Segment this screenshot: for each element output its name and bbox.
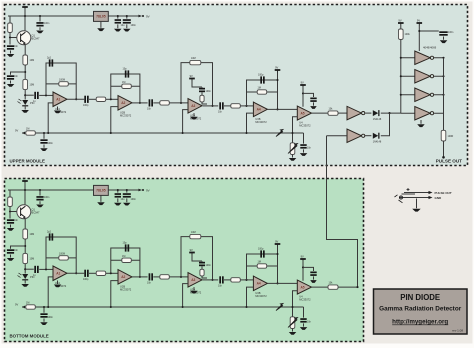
wire C6 to ground <box>43 145 45 148</box>
wire R9 to A3 B <box>169 276 188 278</box>
voltage regulator BU1 78L05 <box>94 185 109 195</box>
wire C15 to ground <box>303 149 305 152</box>
svg-text:10p: 10p <box>123 242 128 245</box>
junction detector node <box>24 94 26 96</box>
buffer U6C <box>415 88 434 102</box>
svg-text:A1: A1 <box>56 98 60 102</box>
svg-text:BC547: BC547 <box>32 37 40 41</box>
wire supply to C16 <box>419 30 439 32</box>
junction detector node B <box>24 268 26 270</box>
junction A4 output B <box>276 282 278 284</box>
op-amp BU2B <box>118 270 132 292</box>
wire bus to C15 B <box>303 307 305 318</box>
resistor R12 <box>231 104 241 108</box>
wire rail to C4 B <box>117 190 119 193</box>
trimmer arrow BRV1 <box>276 304 283 311</box>
wire detector to C7 B <box>25 268 34 270</box>
ground under D-PIN B <box>21 284 29 287</box>
PIN photodiode D1 <box>18 99 35 106</box>
trimpot arrow RV2 <box>288 144 298 154</box>
battery supply BAT <box>22 2 28 9</box>
capacitor C5 <box>123 19 131 23</box>
wire A5 noninv to divider <box>293 117 298 143</box>
resistor R13 feedback <box>257 90 267 94</box>
capacitor BC7 <box>34 266 38 273</box>
connector J1 pulse output jack <box>395 188 416 203</box>
wire A3 output <box>203 105 219 107</box>
svg-text:A5: A5 <box>301 285 305 289</box>
wire U5A to D2 <box>365 112 371 114</box>
buffer U6D <box>415 107 434 121</box>
inverter U5B <box>347 129 365 143</box>
wire buffer output line <box>443 58 445 131</box>
trimpot RV2 <box>290 143 295 155</box>
svg-text:10M: 10M <box>30 59 35 62</box>
wire reference bus B <box>22 306 304 308</box>
wire R12 to A4 <box>240 105 253 107</box>
svg-text:10M: 10M <box>191 231 196 234</box>
svg-text:http://mygeiger.org: http://mygeiger.org <box>392 319 448 326</box>
wire R14B to inter-module link <box>338 286 358 288</box>
svg-text:A4: A4 <box>257 108 261 112</box>
capacitor C13 <box>219 102 223 109</box>
svg-text:100R: 100R <box>448 135 454 138</box>
resistor BR5 <box>26 305 36 309</box>
wire A3 noninv to bus B <box>183 284 188 307</box>
capacitor BC11 <box>149 273 153 280</box>
wire C3 to ground <box>10 81 12 84</box>
svg-text:9V: 9V <box>190 248 193 252</box>
capacitor BC17 <box>310 272 316 276</box>
wire regulator gnd B <box>100 195 102 201</box>
svg-text:100n: 100n <box>48 316 54 319</box>
wire C1 to ground B <box>10 225 12 228</box>
svg-text:10n: 10n <box>14 219 19 222</box>
svg-text:9V: 9V <box>275 65 278 69</box>
resistor R15 <box>399 29 404 40</box>
9V pin A5 B <box>300 254 306 261</box>
junction bus A5 <box>291 132 293 134</box>
svg-text:MC33072: MC33072 <box>120 114 132 118</box>
wire bus to C6 B <box>43 307 45 313</box>
svg-text:10u: 10u <box>121 24 126 27</box>
svg-text:9V: 9V <box>15 129 18 133</box>
capacitor C7 <box>34 92 38 99</box>
svg-text:2p2: 2p2 <box>47 57 52 60</box>
svg-text:10M: 10M <box>30 233 35 236</box>
wire A1 feedback loop <box>46 63 76 99</box>
junction A2 inverting node B <box>110 272 112 274</box>
capacitor C6 <box>40 139 47 143</box>
wire A4 feedback loop <box>247 80 278 109</box>
wire C9 to R7 <box>89 98 96 100</box>
wire D-PIN to ground <box>24 106 26 109</box>
svg-text:1M: 1M <box>122 255 125 258</box>
wire J1 to PULSE OUT label <box>415 192 430 194</box>
svg-text:MC33072: MC33072 <box>120 288 132 292</box>
svg-text:1M: 1M <box>26 128 29 131</box>
op-amp U2B <box>118 96 132 118</box>
wire R7 to A2 B <box>106 272 118 274</box>
resistor R11 <box>200 95 204 102</box>
9V supply arrow B <box>139 188 150 192</box>
svg-text:MC33072: MC33072 <box>255 120 267 124</box>
resistor BR11 <box>200 269 204 276</box>
resistor R16 <box>441 130 446 141</box>
wire A4 noninv to bus <box>247 113 254 133</box>
wire D2 to buffer input line <box>381 112 401 114</box>
svg-text:9V: 9V <box>301 80 304 84</box>
wire A1 feedback R rung <box>46 83 76 85</box>
voltage regulator U1 78L05 <box>94 11 109 21</box>
junction rail C5 B <box>126 189 128 191</box>
ground under C5 <box>123 29 131 32</box>
resistor BR4 <box>23 253 28 263</box>
wire R2 to R3 B <box>24 239 26 253</box>
9V pin A4 <box>275 65 281 72</box>
wire C2 to ground <box>39 27 41 30</box>
svg-text:100n: 100n <box>131 198 137 201</box>
wire A5 output <box>312 112 329 114</box>
ground under C2 B <box>36 205 44 208</box>
junction bus A4 B <box>245 306 247 308</box>
junction buffer output 2 <box>442 75 444 77</box>
wire R9 to A3 <box>169 102 188 104</box>
junction bus A4 <box>245 132 247 134</box>
wire A2 feedback R rung <box>111 85 140 87</box>
resistor R2 <box>23 55 28 65</box>
ground under C4 <box>114 29 122 32</box>
wire R4 to D-PIN <box>24 90 26 100</box>
junction buffer input 3 <box>400 94 402 96</box>
capacitor C10 feedback <box>125 70 129 77</box>
wire A3 output B <box>203 279 219 281</box>
svg-text:1N4148: 1N4148 <box>373 118 382 121</box>
wire detector to C7 <box>25 94 34 96</box>
wire 9V input rail <box>8 15 94 17</box>
wire A2 noninv to bus B <box>111 281 118 307</box>
wire RV2 to ground B <box>292 329 294 332</box>
title block <box>374 289 468 334</box>
9V pin A3 <box>189 74 195 81</box>
wire A2 noninv to bus <box>111 107 118 133</box>
svg-text:Gamma Radiation Detector: Gamma Radiation Detector <box>379 306 462 313</box>
wire A3 bias B <box>192 255 202 261</box>
wire R11 return <box>202 102 207 104</box>
wire to buffer U6B input <box>401 75 415 77</box>
wire R16 to pulse out <box>443 141 445 156</box>
resistor R9 <box>160 101 170 105</box>
comparator U4 <box>297 106 311 127</box>
junction bus A2 <box>110 132 112 134</box>
junction buffer input 2 <box>400 75 402 77</box>
junction A4 feedback 9V B <box>276 253 278 255</box>
wire C2 to ground B <box>39 201 41 204</box>
wire Q emitter to R2 B <box>24 219 26 229</box>
svg-text:100p: 100p <box>258 248 264 251</box>
wire 9V to A5 <box>302 88 304 107</box>
capacitor BC10 feedback <box>125 244 129 251</box>
svg-text:1M: 1M <box>258 261 261 264</box>
svg-text:10n: 10n <box>218 285 223 288</box>
capacitor BC4 <box>115 193 121 197</box>
junction bus C6 <box>43 132 45 134</box>
junction emitter divider B <box>24 245 26 247</box>
wire R1 to Q base B <box>10 207 17 212</box>
ground under C3 <box>7 84 15 87</box>
junction A2 output B <box>139 276 141 278</box>
capacitor C8 feedback <box>49 59 53 66</box>
junction rail-battery B <box>24 189 26 191</box>
ground under A1 <box>54 111 62 114</box>
transistor Q1 BC547 <box>17 31 40 45</box>
wire R2 to R3 <box>24 65 26 79</box>
svg-text:1N4148: 1N4148 <box>373 141 382 144</box>
resistor R14 <box>328 111 338 115</box>
ground under C1 B <box>7 228 15 231</box>
svg-text:1M: 1M <box>122 81 125 84</box>
wire Q emitter to R2 <box>24 45 26 55</box>
wire C5 to ground B <box>126 198 128 202</box>
op-amp BU3A <box>188 273 202 295</box>
REF supply arrow B <box>15 303 25 309</box>
resistor BR8 feedback <box>122 258 132 262</box>
ground under regulator <box>97 28 105 31</box>
junction rail C5 <box>126 15 128 17</box>
wire battery to Q collector <box>24 10 26 31</box>
wire R1 to Q base <box>10 33 17 38</box>
capacitor C2 <box>36 22 43 26</box>
wire C7 to A1 input B <box>39 268 53 270</box>
svg-text:9V: 9V <box>301 254 304 258</box>
svg-text:100p: 100p <box>258 74 264 77</box>
wire C5 to ground <box>126 24 128 28</box>
wire to buffer U6D input <box>401 112 415 114</box>
wire A4 output to A5 B <box>267 282 297 284</box>
ground under D-PIN <box>21 110 29 113</box>
svg-text:9V: 9V <box>23 176 26 180</box>
wire C12 leads B <box>201 261 203 269</box>
wire A4 noninv to bus B <box>247 287 254 307</box>
svg-text:100n: 100n <box>448 31 454 34</box>
ground under C16 <box>440 40 448 43</box>
svg-text:10n: 10n <box>307 147 312 150</box>
wire C1 to ground <box>10 51 12 54</box>
wire base node to C1 B <box>9 212 11 219</box>
svg-text:10n: 10n <box>14 249 19 252</box>
ground under C6 <box>40 148 48 151</box>
wire A2 feedback loop <box>111 74 140 103</box>
junction rail C2 B <box>39 189 41 191</box>
battery supply BAT B <box>22 176 28 183</box>
wire bus to C6 <box>43 133 45 139</box>
wire A1 power pin <box>57 107 59 111</box>
junction A5 supply B <box>302 266 304 268</box>
module box BOTTOM MODULE <box>5 179 364 342</box>
capacitor BC13 <box>219 276 223 283</box>
junction rail C4 B <box>117 189 119 191</box>
ground under C17 <box>310 106 317 109</box>
junction base node <box>9 36 11 38</box>
wire D-PIN to ground B <box>24 280 26 283</box>
wire R12 to A4 B <box>240 279 253 281</box>
wire C7 to A1 input <box>39 94 53 96</box>
wire to buffer U6A input <box>401 57 415 59</box>
svg-text:10M: 10M <box>30 84 35 87</box>
wire A1 noninv to bus <box>48 103 53 133</box>
wire divider to C3 <box>11 72 26 75</box>
capacitor BC6 <box>40 313 47 317</box>
wire buffer supply <box>418 26 420 51</box>
wire bus to C15 <box>303 133 305 144</box>
resistor R6 feedback <box>59 82 69 86</box>
junction rail C2 <box>39 15 41 17</box>
ground under J1 <box>412 209 421 212</box>
op-amp U2A <box>53 92 67 114</box>
wire R14 to inverter U5A <box>338 112 347 114</box>
wire A4 feedback loop B <box>247 254 278 283</box>
wire rail to R1 B <box>9 190 11 197</box>
svg-text:10u: 10u <box>121 198 126 201</box>
wire A4 output to A5 <box>267 108 297 110</box>
wire C4 to ground <box>117 24 119 28</box>
svg-text:9V: 9V <box>417 18 420 22</box>
buffer U6A <box>415 51 434 65</box>
ground under C1 <box>7 54 15 57</box>
wire rail to C2 <box>39 16 41 22</box>
wire regulated 9V rail B <box>108 189 141 191</box>
svg-text:100n: 100n <box>48 142 54 145</box>
svg-text:MC33072: MC33072 <box>299 124 311 128</box>
junction A2 output <box>139 102 141 104</box>
wire C17 to ground <box>313 102 315 105</box>
svg-text:100n: 100n <box>44 196 50 199</box>
wire C3 to ground B <box>10 255 12 258</box>
wire to buffer U6C input <box>401 94 415 96</box>
svg-text:1M: 1M <box>258 87 261 90</box>
wire A3 power pin <box>193 113 195 116</box>
wire A3 power pin B <box>193 287 195 290</box>
9V pin A3 B <box>189 248 195 255</box>
svg-text:A3: A3 <box>191 278 195 282</box>
junction A3 output B <box>211 279 213 281</box>
wire U6D to ground <box>420 120 422 124</box>
svg-text:10M: 10M <box>30 258 35 261</box>
ground under RV2 <box>289 158 297 161</box>
junction rail-battery <box>24 15 26 17</box>
capacitor C11 <box>149 99 153 106</box>
junction A1 inverting node <box>45 94 47 96</box>
svg-text:100k: 100k <box>405 33 411 36</box>
module box UPPER MODULE <box>5 5 468 166</box>
junction A3 inverting node B <box>180 276 182 278</box>
svg-text:BOTTOM MODULE: BOTTOM MODULE <box>10 334 49 339</box>
wire A3 feedback loop <box>181 63 213 106</box>
op-amp U3A <box>188 99 202 121</box>
resistor BR6 feedback <box>59 256 69 260</box>
wire C15 to ground B <box>303 323 305 326</box>
wire A2 output B <box>132 276 148 278</box>
wire regulated 9V rail <box>108 15 141 17</box>
wire buffer input line <box>400 40 402 114</box>
junction A4 output <box>276 108 278 110</box>
capacitor BC8 feedback <box>49 233 53 240</box>
wire A4 feedback R rung <box>247 91 278 93</box>
wire A3 bias <box>192 81 202 87</box>
buffer U6B <box>415 70 434 84</box>
svg-text:MC33072: MC33072 <box>299 298 311 302</box>
junction A3 inverting node <box>180 102 182 104</box>
junction A1 inverting node B <box>45 268 47 270</box>
svg-text:PULSE OUT: PULSE OUT <box>435 191 452 195</box>
junction bus A1 <box>47 132 49 134</box>
svg-text:A4: A4 <box>257 282 261 286</box>
ground under C17 B <box>310 280 317 283</box>
svg-text:100n: 100n <box>131 24 137 27</box>
resistor BR1 <box>8 197 13 207</box>
svg-text:100p: 100p <box>83 104 89 107</box>
wire C11 to R9 <box>153 102 159 104</box>
op-amp BU3B <box>253 276 267 298</box>
wire A2 feedback loop B <box>111 248 140 277</box>
junction A4 inverting node B <box>245 279 247 281</box>
svg-text:A2: A2 <box>121 275 125 279</box>
svg-text:MC33072: MC33072 <box>255 294 267 298</box>
resistor BR9 <box>160 275 170 279</box>
resistor R7 <box>96 97 106 101</box>
capacitor BC15 <box>300 318 306 322</box>
svg-text:BC547: BC547 <box>32 211 40 215</box>
resistor BR7 <box>96 271 106 275</box>
wire R4 to D-PIN B <box>24 264 26 274</box>
wire A3 feedback loop B <box>181 237 213 280</box>
svg-text:100n: 100n <box>206 264 212 267</box>
wire inter-module link <box>327 136 358 287</box>
junction A1 output B <box>75 272 77 274</box>
wire 9V to A4 feedback <box>277 73 279 81</box>
svg-text:10n: 10n <box>147 108 152 111</box>
junction buffer input 1 <box>400 57 402 59</box>
wire A1 power pin B <box>57 281 59 285</box>
wire A1 noninv to bus B <box>48 277 53 307</box>
wire rail to R1 <box>9 16 11 23</box>
wire C16 to ground <box>443 37 445 40</box>
ground under C2 <box>36 31 44 34</box>
trimpot BRV2 <box>290 317 295 329</box>
svg-text:10M: 10M <box>191 57 196 60</box>
9V pin buffers input <box>398 18 404 25</box>
capacitor BC9 <box>84 270 88 277</box>
junction rail C4 <box>117 15 119 17</box>
wire C12 leads <box>201 87 203 95</box>
svg-text:GND: GND <box>435 196 443 200</box>
trimmer arrow RV1 <box>276 130 283 137</box>
wire A3 noninv to bus <box>183 110 188 133</box>
wire A5 supply to C17 B <box>303 267 314 271</box>
wire 9V to A4 feedback B <box>277 247 279 255</box>
wire A1 feedback loop B <box>46 237 76 273</box>
comparator BU4 <box>297 280 311 301</box>
capacitor C12 <box>199 88 205 92</box>
ground under C5 B <box>123 203 131 206</box>
svg-text:A3: A3 <box>191 104 195 108</box>
ground under C6 B <box>40 322 48 325</box>
wire C13 to R12 <box>224 105 231 107</box>
ground under C3 B <box>7 258 15 261</box>
wire U5B to D3 <box>365 135 371 137</box>
svg-text:A2: A2 <box>121 101 125 105</box>
capacitor BC14 feedback <box>260 250 264 257</box>
